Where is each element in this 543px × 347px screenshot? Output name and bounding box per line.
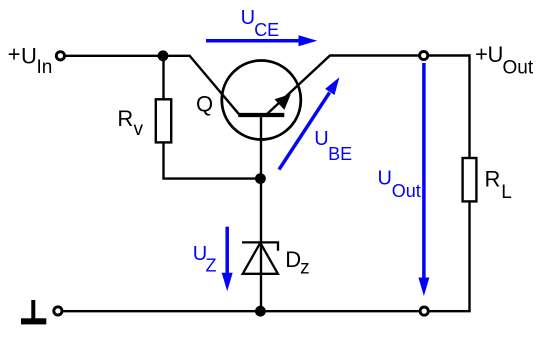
transistor Q base bar bbox=[238, 113, 284, 117]
svg-text:U: U bbox=[488, 42, 504, 67]
transistor Q emitter arrowhead bbox=[275, 94, 291, 110]
label Dz bbox=[285, 247, 309, 279]
wire top-left: input terminal to bend bbox=[66, 55, 191, 57]
terminal open circle output bottom bbox=[420, 307, 428, 315]
svg-text:D: D bbox=[285, 247, 301, 272]
svg-text:R: R bbox=[485, 166, 501, 191]
node junction dot top (Rv/collector) bbox=[158, 50, 169, 61]
arrow U_Out bbox=[418, 63, 429, 296]
arrow U_CE bbox=[206, 35, 317, 46]
svg-text:Q: Q bbox=[196, 91, 213, 116]
terminal open circle output top bbox=[420, 51, 428, 59]
svg-text:+: + bbox=[8, 42, 21, 67]
svg-text:Out: Out bbox=[503, 57, 534, 78]
label U_Out (arrow) bbox=[378, 168, 421, 201]
label U_Z bbox=[193, 243, 217, 275]
label Rv bbox=[117, 106, 143, 140]
label +U_Out bbox=[475, 41, 534, 78]
node junction dot base bbox=[255, 173, 266, 184]
label U_BE bbox=[314, 128, 352, 164]
svg-text:+: + bbox=[475, 41, 488, 66]
zener diode Dz cathode bar with tail bbox=[242, 242, 278, 250]
svg-text:U: U bbox=[21, 43, 37, 68]
arrow U_Z bbox=[222, 227, 233, 292]
node junction dot bottom (zener anode) bbox=[255, 306, 266, 317]
svg-text:U: U bbox=[314, 128, 328, 150]
terminal open circle ground bbox=[54, 307, 62, 315]
label U_CE bbox=[241, 7, 280, 40]
zener diode Dz triangle bbox=[243, 243, 278, 274]
svg-text:Out: Out bbox=[392, 181, 421, 201]
ground symbol bbox=[21, 300, 46, 324]
svg-text:z: z bbox=[300, 258, 310, 279]
wire Rv bottom lead to base node bbox=[164, 142, 261, 178]
wire base vertical (base to bottom rail through zener) bbox=[260, 115, 262, 311]
terminal open circle input bbox=[56, 52, 64, 60]
resistor RL body bbox=[463, 158, 477, 201]
wire right rail upper (to RL) bbox=[468, 54, 470, 158]
svg-text:Z: Z bbox=[206, 255, 217, 275]
svg-text:CE: CE bbox=[254, 20, 279, 40]
svg-text:U: U bbox=[241, 7, 255, 29]
svg-text:BE: BE bbox=[328, 144, 352, 164]
label +U_In bbox=[8, 42, 53, 79]
svg-text:U: U bbox=[378, 168, 392, 190]
transistor Q circle bbox=[222, 61, 301, 140]
label RL bbox=[485, 166, 512, 203]
arrow U_BE bbox=[279, 77, 339, 169]
svg-text:R: R bbox=[117, 106, 133, 131]
resistor Rv body bbox=[156, 99, 171, 142]
svg-text:L: L bbox=[501, 182, 512, 203]
wire Rv top lead bbox=[162, 56, 164, 100]
transistor Q emitter lead + wire to top-right bbox=[267, 56, 470, 115]
svg-text:In: In bbox=[37, 57, 53, 78]
wire collector lead diagonal bbox=[189, 55, 240, 115]
wire bottom rail bbox=[63, 310, 471, 312]
wire right rail lower (RL to bottom rail) bbox=[468, 201, 470, 311]
svg-text:v: v bbox=[134, 119, 144, 140]
